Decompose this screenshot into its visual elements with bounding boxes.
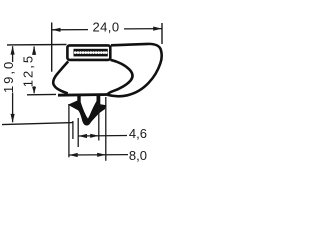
bottom extension line under dart tip (19,0 reference) bbox=[2, 123, 73, 125]
dimension 12,5 vertical line lower segment with arrow bbox=[32, 86, 36, 93]
dimension 12,5 vertical line upper segment with arrow bbox=[32, 46, 36, 55]
dimension line 4,6 with arrows bbox=[78, 134, 127, 138]
tick at end of bottom extension line bbox=[72, 121, 74, 139]
dimension 24,0 extension tick left bbox=[51, 23, 53, 72]
dimension 19,0 vertical line upper segment with arrow bbox=[11, 46, 15, 62]
extension line at balloon bottom (12,5 reference) bbox=[27, 93, 56, 95]
magnet (hatched) bbox=[74, 49, 108, 57]
balloon bottom line bbox=[58, 93, 110, 96]
svg-text:4,6: 4,6 bbox=[129, 126, 147, 141]
svg-text:12,5: 12,5 bbox=[21, 54, 36, 87]
8,0 extension line left bbox=[68, 104, 70, 157]
dimension line 8,0 with arrows bbox=[69, 153, 128, 157]
svg-text:8,0: 8,0 bbox=[129, 148, 147, 163]
4,6 extension line right bbox=[98, 104, 100, 141]
gasket profile: magnet pocket bbox=[67, 45, 110, 60]
dart (arrow-shaped foot), black with white notch bbox=[68, 94, 107, 126]
4,6 extension line left bbox=[77, 118, 79, 147]
svg-text:19,0: 19,0 bbox=[1, 60, 16, 93]
balloon left curl bbox=[53, 61, 68, 93]
right flap outer boundary (top line + right arc) bbox=[108, 44, 162, 96]
right flap inner boundary (curl) bbox=[108, 60, 133, 94]
svg-text:24,0: 24,0 bbox=[93, 19, 120, 34]
8,0 extension line right bbox=[105, 97, 107, 161]
dimension line 24,0 right segment with arrow bbox=[124, 27, 162, 31]
dimension 19,0 vertical line lower segment with arrow bbox=[11, 93, 15, 123]
dimension 24,0 extension tick right bbox=[161, 23, 163, 44]
dimension line 24,0 left segment with arrow bbox=[52, 28, 88, 32]
top extension line bbox=[7, 44, 67, 46]
